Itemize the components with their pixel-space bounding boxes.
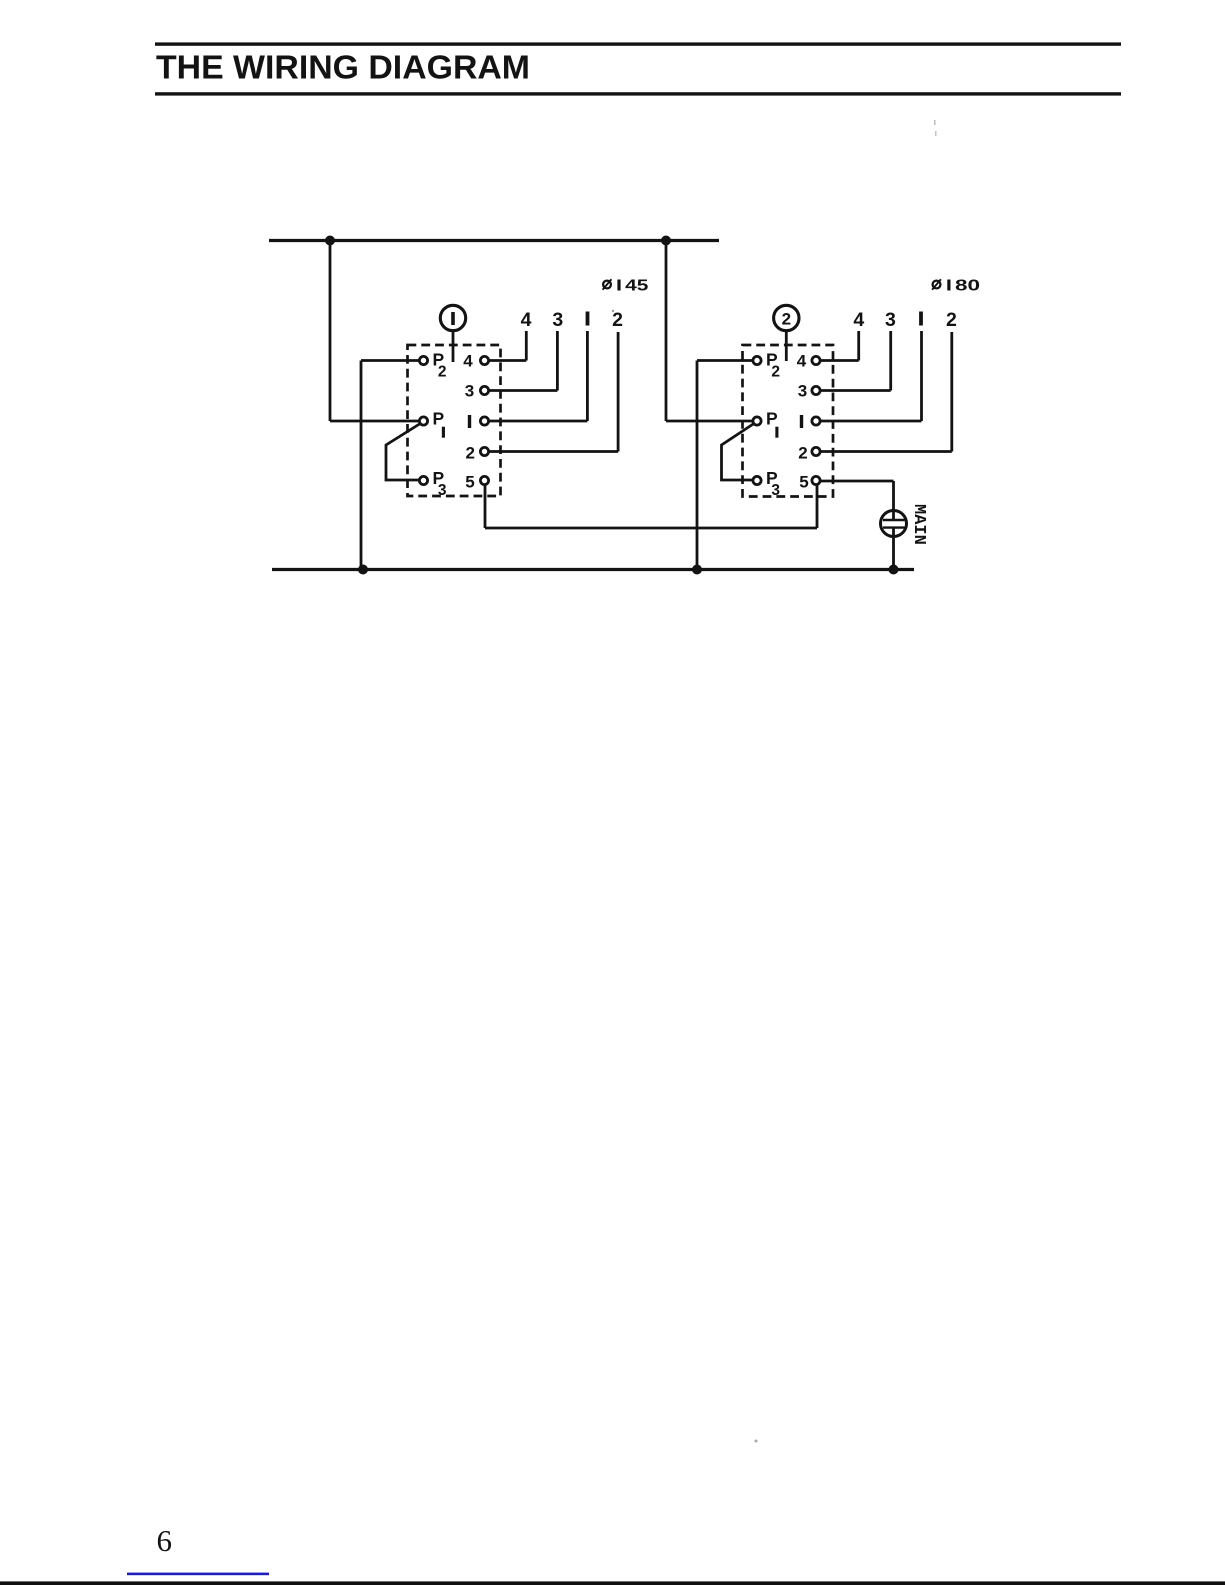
svg-text:4: 4 — [797, 352, 807, 371]
svg-text:2: 2 — [782, 310, 791, 329]
svg-text:80: 80 — [955, 277, 980, 294]
svg-text:4: 4 — [463, 352, 473, 371]
svg-text:2: 2 — [771, 363, 780, 380]
svg-text:4: 4 — [521, 309, 532, 331]
svg-text:2: 2 — [798, 443, 807, 462]
svg-text:2: 2 — [612, 309, 623, 331]
svg-text:4: 4 — [853, 309, 864, 331]
svg-text:2: 2 — [465, 443, 474, 462]
svg-text:3: 3 — [438, 482, 447, 499]
svg-text:3: 3 — [465, 382, 474, 401]
svg-text:3: 3 — [771, 482, 780, 499]
svg-text:2: 2 — [438, 363, 447, 380]
svg-text:5: 5 — [465, 472, 474, 491]
svg-text:3: 3 — [552, 309, 563, 331]
svg-text:45: 45 — [625, 277, 648, 294]
svg-text:THE WIRING DIAGRAM: THE WIRING DIAGRAM — [156, 49, 530, 86]
svg-text:3: 3 — [885, 309, 896, 331]
svg-text:P: P — [433, 409, 445, 429]
svg-text:2: 2 — [946, 309, 957, 331]
svg-text:3: 3 — [798, 382, 807, 401]
svg-text:5: 5 — [799, 472, 808, 491]
svg-text:MAIN: MAIN — [909, 504, 928, 545]
svg-text:P: P — [766, 409, 778, 429]
svg-text:6: 6 — [157, 1523, 173, 1558]
